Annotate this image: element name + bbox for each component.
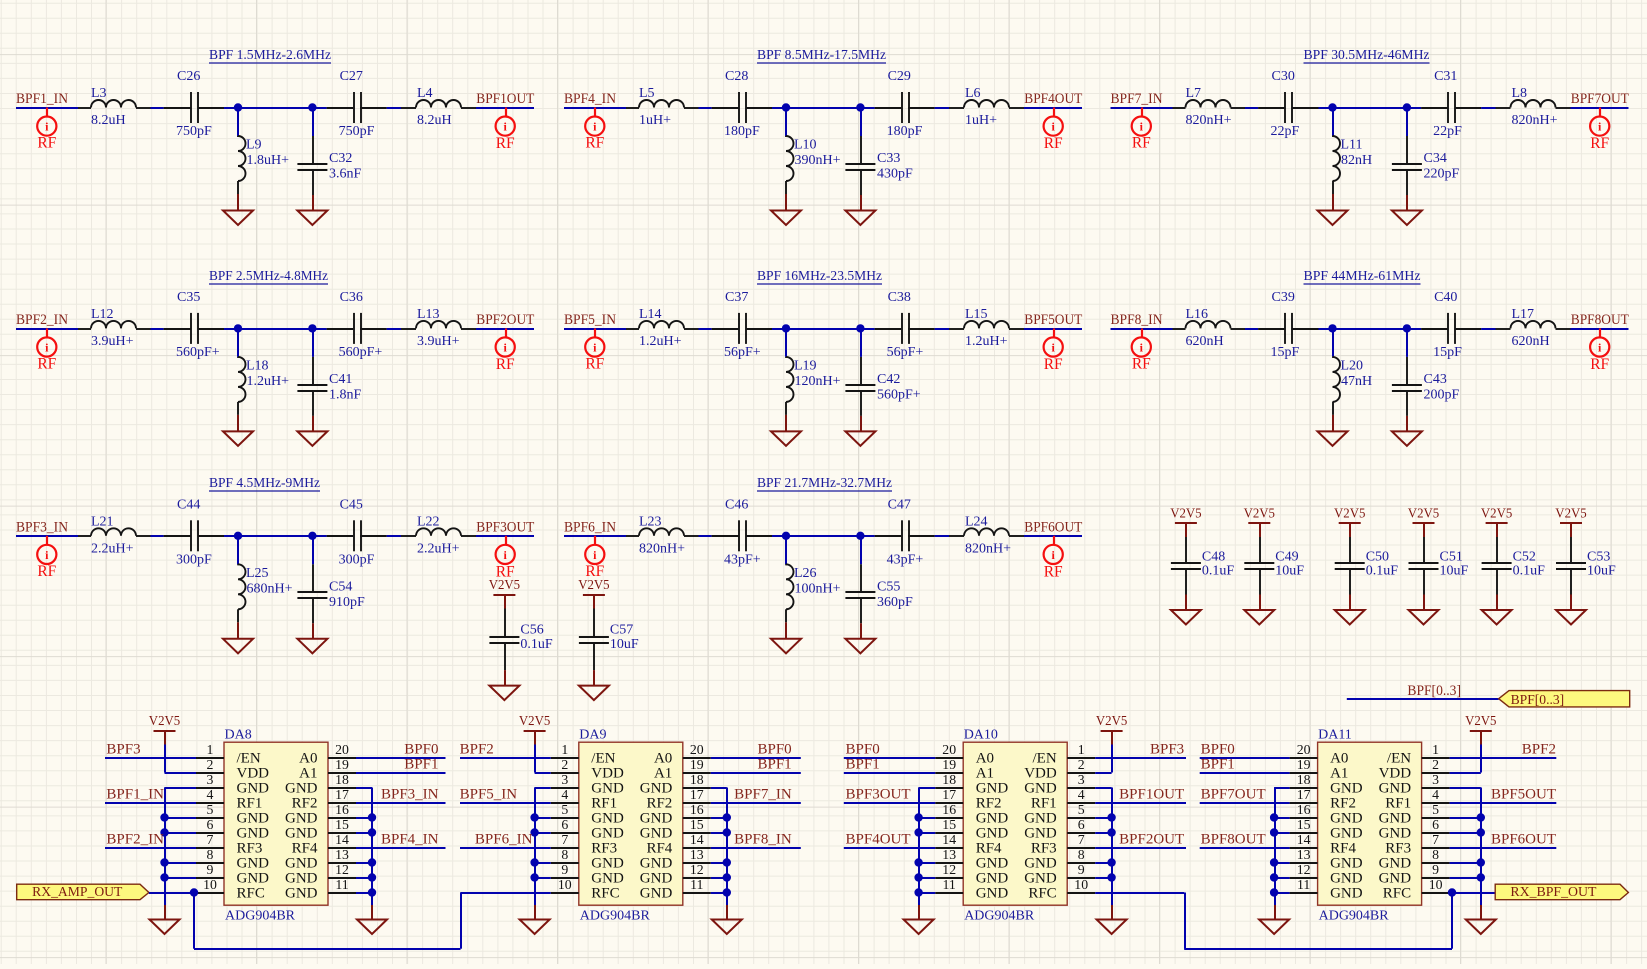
svg-text:6: 6	[1078, 817, 1085, 832]
svg-text:BPF3_IN: BPF3_IN	[381, 786, 439, 802]
pin 4 RF1	[196, 787, 262, 812]
svg-text:GND: GND	[1024, 826, 1057, 842]
svg-text:RFC: RFC	[1028, 886, 1056, 902]
svg-text:1: 1	[1078, 742, 1085, 757]
svg-text:RF3: RF3	[237, 841, 263, 857]
inductor L22 2.2uH+	[401, 514, 476, 556]
power V2V5	[519, 714, 550, 745]
svg-text:43pF+: 43pF+	[724, 552, 761, 567]
pin 16 GND	[285, 802, 356, 827]
pin 14 RF4	[292, 832, 356, 857]
pin 7 RF3	[1385, 832, 1449, 857]
capacitor C45 300pF	[327, 497, 387, 567]
port BPF2_IN	[16, 312, 68, 373]
capacitor C26 750pF	[164, 69, 224, 139]
junction	[1477, 828, 1485, 836]
svg-text:BPF1OUT: BPF1OUT	[476, 91, 534, 107]
svg-text:GND: GND	[1024, 856, 1057, 872]
capacitor C49 10uF	[1244, 537, 1304, 595]
svg-text:19: 19	[690, 757, 704, 772]
svg-text:56pF+: 56pF+	[887, 345, 924, 360]
svg-text:GND: GND	[1330, 811, 1363, 827]
svg-text:9: 9	[207, 862, 214, 877]
svg-text:BPF2_IN: BPF2_IN	[16, 312, 68, 328]
svg-text:RF4: RF4	[292, 841, 318, 857]
pin 20 A0	[935, 742, 994, 767]
svg-text:BPF3OUT: BPF3OUT	[846, 786, 911, 802]
svg-text:8.2uH: 8.2uH	[91, 113, 126, 128]
svg-text:L14: L14	[639, 307, 662, 322]
svg-text:GND: GND	[237, 811, 270, 827]
svg-text:C35: C35	[177, 290, 200, 305]
svg-text:19: 19	[1297, 757, 1311, 772]
pin 15 GND	[285, 817, 356, 842]
svg-text:C41: C41	[329, 372, 352, 387]
svg-text:14: 14	[335, 832, 349, 847]
pin 9 GND	[1024, 862, 1095, 887]
capacitor C43 200pF (shunt)	[1392, 328, 1460, 416]
svg-text:GND: GND	[1379, 856, 1412, 872]
node BPF 21.7MHz-32.7MHz title	[757, 476, 892, 491]
inductor L6 1uH+	[949, 86, 1024, 128]
pin 9 GND	[551, 862, 624, 887]
svg-text:7: 7	[561, 832, 568, 847]
junction	[308, 324, 316, 332]
inductor L15 1.2uH+	[949, 307, 1024, 349]
svg-text:7: 7	[1078, 832, 1085, 847]
svg-text:RF3: RF3	[1385, 841, 1411, 857]
svg-text:7: 7	[207, 832, 214, 847]
junction	[1403, 324, 1411, 332]
svg-text:12: 12	[335, 862, 349, 877]
inductor L11 82nH (shunt)	[1333, 108, 1373, 195]
junction	[1477, 813, 1485, 821]
wire net BPF3OUT	[844, 802, 935, 804]
junction	[1107, 858, 1115, 866]
svg-text:680nH+: 680nH+	[247, 581, 293, 596]
capacitor C44 300pF	[164, 497, 224, 567]
pin 15 GND	[935, 817, 1008, 842]
svg-text:BPF2: BPF2	[1522, 741, 1556, 757]
svg-text:180pF: 180pF	[724, 124, 760, 139]
ground	[1259, 905, 1289, 934]
svg-text:L17: L17	[1512, 307, 1535, 322]
junction	[530, 858, 538, 866]
pin 1 /EN	[196, 742, 261, 767]
svg-text:BPF2OUT: BPF2OUT	[476, 312, 534, 328]
wire net BPF1	[844, 772, 935, 774]
pin 2 VDD	[196, 757, 269, 782]
power V2V5	[1465, 714, 1496, 745]
svg-text:BPF1_IN: BPF1_IN	[106, 786, 164, 802]
pin 12 GND	[1290, 862, 1363, 887]
svg-text:C44: C44	[177, 497, 200, 512]
svg-text:0.1uF: 0.1uF	[1202, 564, 1235, 579]
svg-text:V2V5: V2V5	[1555, 507, 1586, 522]
svg-text:BPF1: BPF1	[404, 756, 438, 772]
svg-text:RF: RF	[37, 135, 56, 152]
svg-text:2: 2	[207, 757, 214, 772]
svg-text:15pF: 15pF	[1271, 345, 1300, 360]
svg-text:14: 14	[1297, 832, 1311, 847]
ground	[297, 195, 327, 225]
svg-text:6: 6	[207, 817, 214, 832]
svg-text:C27: C27	[340, 69, 363, 84]
capacitor C50 0.1uF	[1335, 537, 1399, 595]
svg-text:C39: C39	[1272, 290, 1295, 305]
pin 10 RFC	[1383, 877, 1450, 902]
capacitor C55 360pF (shunt)	[845, 536, 913, 624]
junction	[368, 813, 376, 821]
svg-text:A1: A1	[654, 766, 672, 782]
svg-text:L7: L7	[1186, 86, 1202, 101]
ground	[1482, 595, 1512, 625]
svg-text:A1: A1	[976, 766, 994, 782]
junction	[160, 858, 168, 866]
ground	[845, 623, 875, 653]
svg-text:C34: C34	[1424, 151, 1447, 166]
svg-text:10uF: 10uF	[610, 637, 639, 652]
capacitor C56 0.1uF	[489, 609, 553, 671]
pin 11 GND	[285, 877, 356, 902]
svg-text:GND: GND	[591, 856, 624, 872]
svg-text:19: 19	[335, 757, 349, 772]
svg-text:GND: GND	[237, 826, 270, 842]
pin 3 GND	[551, 772, 624, 797]
svg-text:L24: L24	[965, 514, 988, 529]
capacitor C30 22pF	[1258, 69, 1318, 139]
svg-text:BPF6_IN: BPF6_IN	[475, 831, 533, 847]
ground	[1392, 416, 1422, 446]
wire bus BPF[0..3]	[1347, 698, 1499, 700]
wire	[564, 328, 1082, 330]
wire GND bus	[1274, 788, 1290, 906]
pin 12 GND	[935, 862, 1008, 887]
wire	[16, 107, 534, 109]
svg-text:43pF+: 43pF+	[887, 552, 924, 567]
inductor L26 100nH+ (shunt)	[786, 536, 841, 623]
svg-text:4: 4	[561, 787, 568, 802]
pin 6 GND	[551, 817, 624, 842]
ground	[845, 416, 875, 446]
power V2V5	[578, 578, 609, 609]
svg-text:C43: C43	[1424, 372, 1447, 387]
svg-text:RF: RF	[496, 135, 515, 152]
svg-text:BPF8OUT: BPF8OUT	[1201, 831, 1266, 847]
capacitor C41 1.8nF (shunt)	[297, 328, 361, 416]
wire net BPF7_IN	[711, 802, 801, 804]
svg-text:BPF3_IN: BPF3_IN	[16, 519, 68, 535]
wire DA11 RFC to RX_BPF_OUT	[1450, 892, 1496, 894]
wire	[564, 535, 1082, 537]
svg-text:V2V5: V2V5	[1170, 507, 1201, 522]
port BPF1OUT	[476, 91, 534, 152]
power V2V5	[489, 578, 520, 609]
pin 13 GND	[1290, 847, 1363, 872]
pin 13 GND	[935, 847, 1008, 872]
svg-text:100nH+: 100nH+	[795, 581, 841, 596]
svg-text:C37: C37	[725, 290, 748, 305]
wire	[1111, 107, 1629, 109]
svg-text:BPF2: BPF2	[460, 741, 494, 757]
wire net BPF6_IN	[460, 847, 551, 849]
svg-text:V2V5: V2V5	[1465, 714, 1496, 729]
power V2V5	[1555, 507, 1586, 538]
ground	[1335, 595, 1365, 625]
pin 17 RF2	[935, 787, 1001, 812]
wire net BPF7OUT	[1200, 802, 1290, 804]
svg-text:V2V5: V2V5	[489, 578, 520, 593]
svg-text:8: 8	[561, 847, 568, 862]
svg-text:BPF4_IN: BPF4_IN	[381, 831, 439, 847]
svg-text:V2V5: V2V5	[1096, 714, 1127, 729]
node BPF 44MHz-61MHz title	[1304, 269, 1421, 284]
svg-text:C53: C53	[1587, 549, 1610, 564]
wire GND bus	[356, 788, 372, 906]
pin 4 RF1	[1031, 787, 1095, 812]
svg-text:C54: C54	[329, 579, 352, 594]
svg-text:2.2uH+: 2.2uH+	[417, 541, 460, 556]
junction	[1477, 858, 1485, 866]
capacitor C31 22pF	[1421, 69, 1481, 139]
pin 16 GND	[640, 802, 711, 827]
svg-text:RF1: RF1	[1031, 796, 1057, 812]
wire V2V5 to VDD	[535, 745, 551, 774]
svg-text:RF: RF	[1044, 563, 1063, 580]
svg-text:BPF8_IN: BPF8_IN	[734, 831, 792, 847]
ground	[771, 622, 801, 653]
wire net BPF6OUT	[1450, 847, 1557, 849]
svg-text:1: 1	[561, 742, 568, 757]
node BPF 30.5MHz-46MHz title	[1304, 48, 1430, 63]
svg-text:14: 14	[690, 832, 704, 847]
pin 7 RF3	[196, 832, 262, 857]
pin 14 RF4	[646, 832, 710, 857]
ground	[1318, 194, 1348, 225]
svg-text:11: 11	[943, 877, 956, 892]
svg-text:15: 15	[335, 817, 349, 832]
svg-text:10uF: 10uF	[1587, 564, 1616, 579]
power V2V5	[1334, 507, 1365, 538]
svg-text:BPF[0..3]: BPF[0..3]	[1511, 692, 1565, 707]
pin 1 /EN	[551, 742, 616, 767]
ground	[357, 905, 387, 934]
ground	[1097, 905, 1127, 934]
pin 18 GND	[285, 772, 356, 797]
svg-text:L23: L23	[639, 514, 662, 529]
inductor L7 820nH+	[1173, 86, 1246, 128]
svg-text:8: 8	[1432, 847, 1439, 862]
junction	[914, 828, 922, 836]
svg-text:8.2uH: 8.2uH	[417, 113, 452, 128]
wire net BPF2	[1450, 757, 1557, 759]
ground	[223, 194, 253, 225]
wire net BPF1OUT	[1095, 802, 1186, 804]
svg-text:BPF 44MHz-61MHz: BPF 44MHz-61MHz	[1304, 269, 1421, 284]
inductor L18 1.2uH+ (shunt)	[238, 328, 289, 415]
svg-text:15: 15	[942, 817, 956, 832]
svg-text:13: 13	[1297, 847, 1311, 862]
svg-text:BPF6_IN: BPF6_IN	[564, 519, 616, 535]
svg-text:C32: C32	[329, 151, 352, 166]
svg-text:L8: L8	[1512, 86, 1528, 101]
ground	[1466, 905, 1496, 934]
svg-text:V2V5: V2V5	[1481, 507, 1512, 522]
pin 12 GND	[640, 862, 711, 887]
svg-text:BPF7_IN: BPF7_IN	[734, 786, 792, 802]
svg-text:RF: RF	[37, 355, 56, 372]
junction	[723, 888, 731, 896]
svg-text:BPF 2.5MHz-4.8MHz: BPF 2.5MHz-4.8MHz	[209, 269, 328, 284]
pin 2 VDD	[1024, 757, 1095, 782]
svg-text:L5: L5	[639, 86, 655, 101]
svg-text:L4: L4	[417, 86, 433, 101]
svg-text:L13: L13	[417, 307, 440, 322]
svg-text:DA8: DA8	[225, 728, 252, 743]
svg-text:BPF 8.5MHz-17.5MHz: BPF 8.5MHz-17.5MHz	[757, 48, 886, 63]
capacitor C27 750pF	[327, 69, 387, 139]
svg-text:GND: GND	[285, 826, 318, 842]
svg-text:GND: GND	[1024, 811, 1057, 827]
wire net BPF4OUT	[844, 847, 935, 849]
junction	[368, 828, 376, 836]
svg-text:GND: GND	[237, 781, 270, 797]
svg-text:C52: C52	[1513, 549, 1536, 564]
svg-text:L25: L25	[246, 566, 269, 581]
pin 9 GND	[196, 862, 269, 887]
junction	[914, 888, 922, 896]
svg-text:RF2: RF2	[646, 796, 672, 812]
capacitor C35 560pF+	[164, 290, 224, 360]
svg-text:C46: C46	[725, 497, 748, 512]
svg-text:GND: GND	[591, 781, 624, 797]
pin 16 GND	[935, 802, 1008, 827]
port BPF2OUT	[476, 312, 534, 373]
svg-text:L11: L11	[1341, 138, 1363, 153]
svg-text:BPF5_IN: BPF5_IN	[564, 312, 616, 328]
svg-text:GND: GND	[591, 811, 624, 827]
svg-text:15: 15	[690, 817, 704, 832]
svg-text:V2V5: V2V5	[1408, 507, 1439, 522]
svg-text:18: 18	[942, 772, 956, 787]
svg-text:C29: C29	[888, 69, 911, 84]
svg-text:BPF 30.5MHz-46MHz: BPF 30.5MHz-46MHz	[1304, 48, 1430, 63]
ground	[904, 905, 934, 934]
svg-text:L15: L15	[965, 307, 988, 322]
capacitor C37 56pF+	[712, 290, 772, 360]
svg-text:A0: A0	[299, 751, 317, 767]
svg-text:V2V5: V2V5	[519, 714, 550, 729]
junction	[1270, 858, 1278, 866]
svg-text:RF1: RF1	[237, 796, 263, 812]
svg-text:GND: GND	[1379, 871, 1412, 887]
svg-text:/EN: /EN	[591, 751, 615, 767]
pin 19 A1	[935, 757, 994, 782]
junction	[1270, 888, 1278, 896]
svg-text:6: 6	[561, 817, 568, 832]
port BPF7_IN	[1111, 91, 1163, 152]
svg-text:GND: GND	[285, 856, 318, 872]
svg-text:RF3: RF3	[591, 841, 617, 857]
inductor L5 1uH+	[626, 86, 699, 128]
port RX_BPF_OUT	[1495, 884, 1628, 900]
svg-text:GND: GND	[1330, 886, 1363, 902]
svg-text:20: 20	[942, 742, 956, 757]
svg-text:BPF 16MHz-23.5MHz: BPF 16MHz-23.5MHz	[757, 269, 882, 284]
pin 6 GND	[196, 817, 269, 842]
svg-text:17: 17	[335, 787, 349, 802]
svg-text:10uF: 10uF	[1440, 564, 1469, 579]
svg-text:L3: L3	[91, 86, 107, 101]
wire DA10 RFC bus	[1095, 893, 1452, 950]
junction	[782, 324, 790, 332]
svg-text:10: 10	[203, 877, 217, 892]
pin 18 GND	[640, 772, 711, 797]
svg-text:750pF: 750pF	[176, 124, 212, 139]
svg-text:/EN: /EN	[237, 751, 261, 767]
port BPF7OUT	[1571, 91, 1629, 152]
svg-text:GND: GND	[640, 826, 673, 842]
ground	[297, 416, 327, 446]
svg-text:ADG904BR: ADG904BR	[1319, 908, 1390, 923]
pin 11 GND	[1290, 877, 1363, 902]
pin 1 /EN	[1387, 742, 1450, 767]
svg-text:VDD: VDD	[1379, 766, 1412, 782]
ground	[297, 623, 327, 653]
svg-text:BPF0: BPF0	[846, 741, 880, 757]
inductor L25 680nH+ (shunt)	[238, 536, 293, 623]
svg-text:C48: C48	[1202, 549, 1225, 564]
svg-text:BPF 1.5MHz-2.6MHz: BPF 1.5MHz-2.6MHz	[209, 48, 331, 63]
svg-text:20: 20	[1297, 742, 1311, 757]
wire net BPF3	[1095, 757, 1186, 759]
svg-text:22pF: 22pF	[1433, 124, 1462, 139]
svg-text:BPF2OUT: BPF2OUT	[1119, 831, 1184, 847]
svg-text:BPF4OUT: BPF4OUT	[1024, 91, 1082, 107]
svg-text:1.2uH+: 1.2uH+	[247, 374, 290, 389]
ground	[712, 905, 742, 934]
svg-text:L9: L9	[246, 138, 262, 153]
port BPF3_IN	[16, 519, 68, 580]
junction	[856, 324, 864, 332]
svg-text:BPF1OUT: BPF1OUT	[1119, 786, 1184, 802]
svg-text:RF2: RF2	[976, 796, 1002, 812]
wire net BPF8_IN	[711, 847, 801, 849]
svg-text:17: 17	[690, 787, 704, 802]
pin 19 A1	[1290, 757, 1349, 782]
svg-text:10: 10	[1074, 877, 1088, 892]
svg-text:RF4: RF4	[1330, 841, 1356, 857]
svg-text:BPF5_IN: BPF5_IN	[460, 786, 518, 802]
junction	[1107, 813, 1115, 821]
svg-text:BPF7OUT: BPF7OUT	[1571, 91, 1629, 107]
port RX_AMP_OUT	[17, 884, 149, 900]
pin 9 GND	[1379, 862, 1450, 887]
svg-text:2: 2	[1078, 757, 1085, 772]
pin 6 GND	[1379, 817, 1450, 842]
power V2V5	[149, 714, 180, 745]
wire	[564, 107, 1082, 109]
svg-text:C30: C30	[1272, 69, 1295, 84]
inductor L10 390nH+ (shunt)	[786, 108, 841, 195]
svg-text:A1: A1	[299, 766, 317, 782]
svg-text:DA9: DA9	[579, 728, 606, 743]
svg-text:L18: L18	[246, 358, 269, 373]
svg-text:9: 9	[1432, 862, 1439, 877]
svg-text:C49: C49	[1275, 549, 1298, 564]
pin 11 GND	[640, 877, 711, 902]
junction	[1270, 828, 1278, 836]
